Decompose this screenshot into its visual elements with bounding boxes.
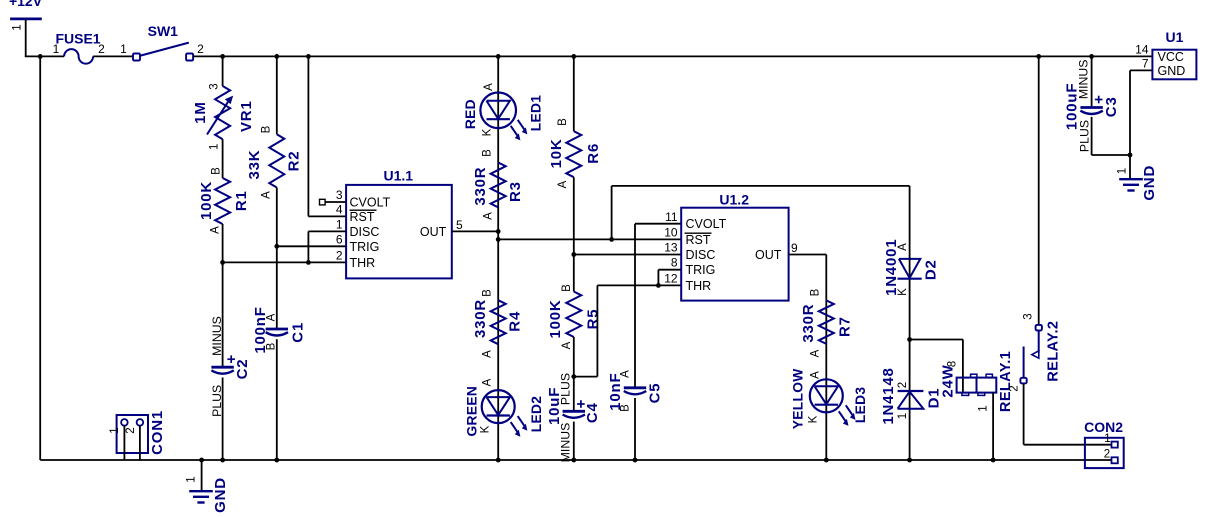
wire R5 to C4 node [573, 337, 575, 377]
svg-text:PLUS: PLUS [1077, 120, 1091, 152]
svg-text:B: B [810, 288, 822, 296]
label 100K [198, 181, 215, 220]
pin A of R2 [261, 191, 273, 199]
svg-text:2: 2 [897, 382, 909, 388]
wire OUT to U1.2 RST [498, 238, 681, 240]
svg-text:MINUS: MINUS [558, 423, 572, 463]
capacitor C2 [211, 367, 233, 374]
svg-text:2: 2 [1104, 449, 1110, 461]
node R1-THR junction [220, 260, 225, 265]
pin name GND of U1 [1158, 64, 1186, 78]
label 330R of R7 [800, 304, 817, 343]
wire GND stem right [1129, 155, 1131, 179]
label 10nF [607, 373, 624, 411]
svg-text:C1: C1 [289, 322, 306, 343]
label CON2 [1084, 419, 1123, 435]
pin number 11 of U1.2 [665, 210, 678, 224]
svg-text:RED: RED [463, 99, 478, 129]
node TRIG-THR junction U1.2 [656, 283, 661, 288]
svg-text:2: 2 [1009, 385, 1021, 391]
node LED2-bus junction [496, 458, 501, 463]
pin number 2 of FUSE1 [98, 42, 105, 56]
pin number 4 of U1.1 [336, 202, 343, 216]
pin number 13 of U1.2 [664, 241, 678, 255]
wire C4 to bus [573, 422, 575, 460]
svg-text:33K: 33K [246, 150, 263, 180]
pin name VCC of U1 [1158, 50, 1184, 64]
plus sign of C4 [577, 400, 585, 408]
svg-text:B: B [482, 149, 494, 157]
power label +12V [9, 0, 43, 9]
svg-text:LED3: LED3 [853, 387, 868, 423]
svg-text:A: A [561, 341, 573, 349]
svg-text:5: 5 [456, 218, 463, 232]
pin number 1 of SW1 [120, 42, 127, 56]
label PLUS of C3 [1077, 120, 1091, 152]
label 33K [246, 150, 263, 180]
svg-text:SW1: SW1 [148, 23, 179, 39]
wire D2 riser [612, 186, 910, 240]
label LED2 [529, 396, 544, 432]
svg-text:9: 9 [791, 241, 798, 255]
wire +12V feed [25, 20, 27, 57]
label C4 [584, 402, 601, 423]
svg-text:GND: GND [212, 477, 229, 513]
svg-text:100K: 100K [198, 181, 215, 220]
resistor R7 [819, 300, 834, 344]
svg-text:B: B [620, 404, 632, 412]
svg-text:330R: 330R [800, 304, 817, 343]
pin A of D2 [897, 243, 909, 251]
svg-text:DISC: DISC [686, 248, 716, 262]
label 330R of R3 [472, 167, 489, 206]
node C2-bus junction [220, 458, 225, 463]
label YELLOW [790, 368, 805, 429]
label 1M [192, 101, 209, 123]
svg-text:LED2: LED2 [529, 396, 544, 432]
pin number 6 of U1.1 [336, 232, 343, 246]
svg-text:GND: GND [1158, 64, 1186, 78]
svg-text:THR: THR [686, 279, 712, 293]
svg-text:RELAY.2: RELAY.2 [1045, 321, 1061, 382]
label RED [463, 99, 478, 129]
svg-text:CVOLT: CVOLT [350, 196, 391, 210]
svg-text:1: 1 [1104, 433, 1110, 445]
label C2 [234, 359, 251, 380]
svg-text:B: B [266, 342, 278, 350]
pin name RST of U1.1 [350, 210, 375, 224]
label 100nF [252, 306, 269, 353]
wire R2 to TRIG node [276, 188, 278, 247]
svg-text:R2: R2 [286, 151, 303, 172]
capacitor C4 [563, 411, 585, 418]
resistor R3 [491, 163, 506, 208]
label LED3 [853, 387, 868, 423]
pin number 3 of VR1 [209, 83, 221, 89]
pin number 1 of FUSE1 [53, 42, 60, 56]
svg-text:1: 1 [186, 476, 198, 482]
power symbol +12V bar [10, 17, 42, 20]
svg-text:MINUS: MINUS [210, 316, 224, 356]
pin number 5 of U1.1 [456, 218, 463, 232]
wire rail to U1.1 RST [308, 56, 346, 216]
pin name DISC of U1.2 [686, 248, 716, 262]
svg-text:A: A [482, 378, 494, 386]
svg-text:2: 2 [197, 42, 204, 56]
svg-text:TRIG: TRIG [686, 263, 716, 277]
overbar of RST U1.2 [685, 232, 712, 234]
pin A of LED1 [483, 83, 495, 91]
wire DISC to U1.2 [574, 254, 681, 256]
wire C1 to bus [276, 339, 278, 460]
pin number 3 of U1.1 [336, 188, 343, 202]
label R3 [507, 181, 524, 202]
label GREEN [465, 386, 480, 437]
svg-text:10K: 10K [548, 138, 565, 168]
pin number 2 of CON1 [125, 427, 137, 433]
svg-text:C4: C4 [584, 402, 601, 423]
pin number 1 of CON1 [109, 427, 121, 433]
IC U1 box [1152, 50, 1196, 80]
fuse FUSE1 [64, 49, 93, 63]
relay contact RELAY.2 [1020, 325, 1042, 384]
node rail-RELAY2 junction [1036, 54, 1041, 59]
plus sign of C3 [1095, 96, 1103, 104]
pin A of R1 [210, 226, 222, 234]
svg-text:FUSE1: FUSE1 [55, 31, 100, 47]
svg-text:B: B [261, 125, 273, 133]
svg-text:RST: RST [686, 233, 711, 247]
svg-text:B: B [557, 118, 569, 126]
svg-text:1: 1 [1117, 168, 1129, 174]
svg-text:1: 1 [53, 42, 60, 56]
resistor R6 [566, 131, 581, 177]
label SW1 [148, 23, 179, 39]
svg-text:13: 13 [664, 241, 678, 255]
label R5 [585, 309, 602, 330]
pin A of R5 [561, 341, 573, 349]
svg-text:A: A [210, 226, 222, 234]
node C4-bus junction [571, 458, 576, 463]
wire C2 to bus [222, 378, 224, 461]
wire rail to relay contact [1038, 56, 1040, 324]
pin K of LED2 [480, 425, 492, 433]
potentiometer VR1 [207, 86, 233, 139]
wire C4 node to plates [573, 377, 575, 412]
node DISC-THR junction [306, 260, 311, 265]
svg-text:CVOLT: CVOLT [686, 217, 727, 231]
svg-text:VCC: VCC [1158, 50, 1184, 64]
switch SW1 [133, 43, 193, 61]
LED LED1 [480, 93, 527, 141]
pin A of R7 [810, 349, 822, 357]
wire U1.2 THR [597, 284, 681, 286]
overbar of RST U1.1 [350, 209, 377, 211]
svg-text:GND: GND [1141, 165, 1158, 201]
wire CON1 pin1 to bus [123, 426, 125, 460]
svg-text:C3: C3 [1103, 96, 1120, 117]
pin number 9 of U1.2 [791, 241, 798, 255]
pin number 7 of U1 [1142, 57, 1149, 71]
pin 1 of D1 [897, 413, 909, 419]
svg-text:A: A [810, 349, 822, 357]
pin number 1 of CON2 [1104, 433, 1110, 445]
svg-text:1: 1 [12, 24, 24, 30]
label 24W [940, 364, 957, 397]
pin B of R2 [261, 125, 273, 133]
pin number 10 of U1.2 [664, 225, 678, 239]
svg-text:3: 3 [1023, 313, 1035, 319]
svg-text:LED1: LED1 [529, 95, 544, 131]
node rail-C3 junction [1089, 54, 1094, 59]
label LED1 [529, 95, 544, 131]
svg-text:THR: THR [350, 256, 376, 270]
label R7 [836, 316, 853, 337]
node +12V rail / left bus junction [38, 54, 43, 59]
node R2-TRIG junction [274, 244, 279, 249]
wire top rail main segment [193, 55, 1152, 57]
pin A of C5 [620, 370, 632, 378]
node D1-bus junction [907, 458, 912, 463]
pin number 1 of +12V [12, 24, 24, 30]
svg-text:100K: 100K [547, 299, 564, 338]
pin K of LED3 [808, 415, 820, 423]
label 1N4148 [880, 367, 897, 424]
wire D2 column [909, 186, 911, 460]
wire GND stem left [201, 460, 203, 491]
svg-text:C5: C5 [646, 383, 663, 404]
svg-text:1: 1 [336, 217, 343, 231]
svg-text:U1: U1 [1166, 29, 1184, 45]
pin number 1 of relay coil [978, 405, 990, 411]
svg-text:1: 1 [897, 413, 909, 419]
label PLUS of C4 [558, 373, 572, 405]
svg-text:B: B [482, 289, 494, 297]
node LED3-bus junction [824, 458, 829, 463]
capacitor C1 [266, 329, 288, 336]
label PLUS of C2 [210, 385, 224, 417]
wire LED1 column [497, 56, 499, 460]
pin 2 circle of CON1 [137, 419, 144, 426]
pin B of R7 [810, 288, 822, 296]
label C5 [646, 383, 663, 404]
diode D2 [898, 259, 922, 279]
wire U1.2 OUT [789, 255, 827, 461]
pin name OUT of U1.2 [755, 248, 782, 262]
svg-text:1M: 1M [192, 101, 209, 123]
label MINUS of C4 [558, 423, 572, 463]
wire top rail left segment [25, 55, 64, 57]
svg-text:K: K [480, 425, 492, 433]
svg-text:YELLOW: YELLOW [790, 368, 805, 429]
wire THR node to C2 [222, 262, 224, 367]
label U1.2 [719, 192, 749, 208]
wire U1.2 TRIG link [658, 270, 681, 286]
svg-text:R7: R7 [836, 316, 853, 337]
wire rail to VR1 [222, 56, 224, 86]
pin name CVOLT of U1.2 [686, 217, 727, 231]
relay coil 24W [957, 374, 997, 395]
wire coil to bus [992, 393, 994, 460]
svg-text:2: 2 [336, 248, 343, 262]
wire rail to R6 [573, 56, 575, 131]
svg-text:10: 10 [664, 225, 678, 239]
pin B of R4 [482, 289, 494, 297]
wire fuse to switch [93, 55, 132, 57]
svg-text:1N4148: 1N4148 [880, 367, 897, 424]
svg-text:C2: C2 [234, 359, 251, 380]
wire DISC node to R5 [573, 255, 575, 292]
pin number 2 of relay contact [1009, 385, 1021, 391]
label C1 [289, 322, 306, 343]
wire U1 GND pin drop [1130, 70, 1152, 155]
svg-text:K: K [808, 415, 820, 423]
svg-text:A: A [810, 371, 822, 379]
pin A of LED3 [810, 371, 822, 379]
LED LED3 [810, 379, 856, 426]
node C5-bus junction [633, 458, 638, 463]
svg-text:6: 6 [336, 232, 343, 246]
node rail-VR1 junction [220, 54, 225, 59]
pin number 1 of GND left [186, 476, 198, 482]
label R4 [507, 311, 524, 332]
pin name CVOLT of U1.1 [350, 196, 391, 210]
pin name OUT of U1.1 [420, 225, 447, 239]
wire THR drop vertical [596, 285, 598, 376]
node D2-coil junction [907, 337, 912, 342]
wire C3 to GND node [1092, 117, 1130, 155]
svg-text:A: A [483, 83, 495, 91]
wire left vertical bus [39, 56, 41, 460]
node OUT long-wire junction [496, 237, 501, 242]
wire R1 to THR node [222, 224, 224, 262]
pin B of R6 [557, 118, 569, 126]
label U1 [1166, 29, 1184, 45]
node GND-bus junction [199, 458, 204, 463]
svg-text:+12V: +12V [9, 0, 43, 9]
ground left GND symbol [189, 491, 213, 502]
node rail-LED1 junction [496, 54, 501, 59]
svg-text:330R: 330R [472, 167, 489, 206]
label 10K [548, 138, 565, 168]
wire rail to R2 [276, 56, 278, 134]
pin A of C1 [266, 313, 278, 321]
svg-text:RELAY.1: RELAY.1 [998, 351, 1014, 412]
pin name DISC of U1.1 [350, 225, 380, 239]
label R6 [585, 143, 602, 164]
svg-text:3: 3 [209, 83, 221, 89]
IC U1.1 box [346, 185, 452, 279]
pin number 2 of SW1 [197, 42, 204, 56]
pin B of C1 [266, 342, 278, 350]
pin number 1 of U1.1 [336, 217, 343, 231]
svg-text:D2: D2 [922, 259, 939, 280]
svg-text:3: 3 [336, 188, 343, 202]
svg-text:K: K [482, 128, 494, 136]
svg-text:A: A [482, 350, 494, 358]
label GND left [212, 477, 229, 513]
pin K of LED1 [482, 128, 494, 136]
svg-text:B: B [210, 167, 222, 175]
svg-text:K: K [897, 288, 909, 296]
svg-text:1: 1 [109, 427, 121, 433]
resistor R5 [566, 292, 581, 338]
label GND right [1141, 165, 1158, 201]
pin number 2 of CON2 [1104, 449, 1110, 461]
svg-text:GREEN: GREEN [465, 386, 480, 437]
node rail-RST riser junction [306, 54, 311, 59]
svg-text:330R: 330R [472, 299, 489, 338]
pin name THR of U1.2 [686, 279, 712, 293]
resistor R2 [269, 134, 284, 187]
node C3-GND junction [1128, 153, 1133, 158]
no-connect square on U1.1 CVOLT [320, 199, 347, 205]
svg-text:U1.1: U1.1 [384, 168, 414, 184]
pin 1 square of CON2 [1112, 442, 1118, 448]
svg-text:R6: R6 [585, 143, 602, 164]
wire rail to C3 [1091, 56, 1093, 106]
wire THR drop horizontal [574, 376, 598, 378]
svg-text:R3: R3 [507, 181, 524, 202]
label D1 [925, 388, 942, 409]
node R5-C4-THR junction [571, 374, 576, 379]
svg-text:DISC: DISC [350, 225, 380, 239]
pin number 14 of U1 [1135, 43, 1149, 57]
pin name RST of U1.2 [686, 233, 711, 247]
ground right GND symbol [1119, 179, 1143, 190]
svg-text:1: 1 [209, 144, 221, 150]
pin number 2 of U1.1 [336, 248, 343, 262]
pin B of C5 [620, 404, 632, 412]
svg-text:11: 11 [665, 210, 678, 224]
svg-text:4: 4 [336, 202, 343, 216]
IC U1.2 box [681, 208, 788, 301]
pin name TRIG of U1.2 [686, 263, 716, 277]
svg-text:R4: R4 [507, 311, 524, 332]
svg-text:2: 2 [125, 427, 137, 433]
wire C5 to bus [634, 398, 636, 460]
label 1N4001 [883, 239, 900, 296]
LED LED2 [482, 390, 528, 437]
label 10uF [546, 387, 563, 425]
label R2 [286, 151, 303, 172]
label 100K of R5 [547, 299, 564, 338]
svg-text:A: A [261, 191, 273, 199]
wire VR1 to R1 [222, 139, 224, 178]
label MINUS of C3 [1076, 59, 1090, 99]
label D2 [922, 259, 939, 280]
wire U1.1 OUT to LED column [452, 230, 498, 232]
pin number 8 of relay coil [947, 361, 959, 367]
pin B of R1 [210, 167, 222, 175]
svg-text:1: 1 [978, 405, 990, 411]
label RELAY.1 [998, 351, 1014, 412]
pin 2 square of CON2 [1112, 457, 1118, 463]
pin A of R6 [557, 180, 569, 188]
svg-text:2: 2 [98, 42, 105, 56]
wire R6 to DISC node [573, 177, 575, 254]
svg-text:B: B [561, 284, 573, 292]
label 330R of R4 [472, 299, 489, 338]
svg-text:A: A [266, 313, 278, 321]
pin B of R5 [561, 284, 573, 292]
svg-text:OUT: OUT [755, 248, 782, 262]
pin B of R3 [482, 149, 494, 157]
pin number 1 of VR1 [209, 144, 221, 150]
svg-text:24W: 24W [940, 364, 957, 397]
pin name THR of U1.1 [350, 256, 376, 270]
svg-text:10uF: 10uF [546, 387, 563, 425]
